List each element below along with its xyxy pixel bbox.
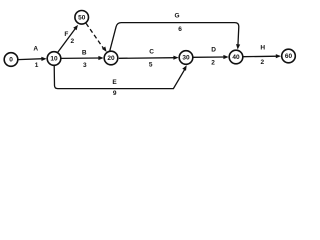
node 20 — [104, 51, 118, 65]
arrowhead H — [276, 54, 281, 58]
svg-text:10: 10 — [50, 56, 58, 63]
svg-text:D: D — [211, 46, 216, 53]
svg-text:60: 60 — [285, 53, 293, 60]
node 50 — [75, 10, 89, 24]
node 60 — [282, 49, 296, 63]
wire H: 40 to 60 — [243, 55, 278, 58]
svg-text:20: 20 — [107, 55, 115, 62]
wire G: 20 up over to 40 — [110, 23, 239, 51]
wire E: 10 down along bottom to 30 — [54, 65, 185, 88]
svg-text:2: 2 — [260, 59, 264, 66]
svg-text:0: 0 — [9, 57, 13, 64]
wire A: 0 to 10 — [18, 58, 44, 61]
svg-text:G: G — [174, 13, 179, 20]
wire C: 20 to 30 — [119, 57, 176, 60]
arrowhead C — [173, 56, 178, 60]
node 0 — [4, 53, 18, 67]
svg-text:H: H — [260, 45, 265, 52]
arrowhead A — [41, 57, 46, 61]
svg-text:F: F — [64, 31, 68, 38]
wire D: 30 to 40 — [193, 56, 226, 58]
svg-text:30: 30 — [182, 55, 190, 62]
wire B: 10 to 20 — [61, 57, 101, 59]
arrowhead F — [73, 25, 78, 30]
svg-text:5: 5 — [149, 62, 153, 69]
svg-text:C: C — [149, 49, 154, 56]
arrowhead D — [223, 55, 228, 59]
arrowhead dummy — [102, 47, 107, 52]
svg-text:2: 2 — [211, 60, 215, 67]
arrowhead B — [98, 56, 103, 60]
node 30 — [179, 51, 193, 65]
node 40 — [229, 50, 243, 64]
svg-text:2: 2 — [70, 38, 74, 45]
svg-text:40: 40 — [232, 54, 240, 61]
svg-text:A: A — [33, 46, 38, 53]
arrowhead G — [236, 44, 240, 49]
svg-text:9: 9 — [113, 90, 117, 97]
svg-text:1: 1 — [35, 62, 39, 69]
wire dummy dashed: 50 to 20 — [86, 23, 103, 48]
node 10 — [47, 52, 61, 66]
arrowhead E — [182, 65, 186, 71]
svg-text:B: B — [82, 50, 87, 57]
svg-text:3: 3 — [83, 62, 87, 69]
svg-text:E: E — [112, 79, 117, 86]
svg-text:50: 50 — [78, 15, 86, 22]
svg-text:6: 6 — [178, 26, 182, 33]
wire F: 10 to 50 — [58, 27, 76, 52]
